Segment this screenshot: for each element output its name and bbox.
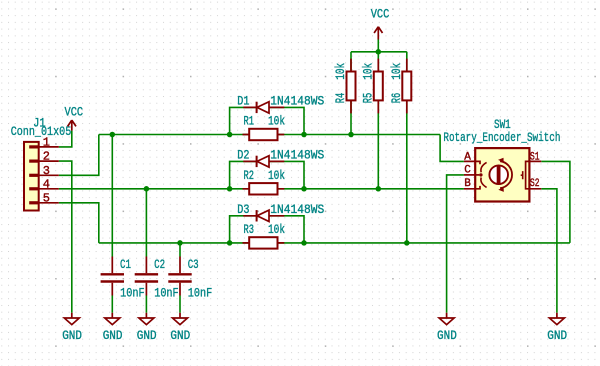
svg-text:R1: R1 [244,115,255,129]
wire VCC to R4 R5 R6 tops [351,40,407,52]
resistor R6 [402,59,411,114]
power VCC left [68,120,76,131]
svg-text:C1: C1 [120,258,131,272]
wire C1 riser [111,135,113,313]
diode D3 [243,210,284,221]
ground GND1 [64,313,79,325]
ground GND5 [439,313,454,325]
svg-text:1N4148WS: 1N4148WS [270,203,324,217]
wire SW1 pin C to GND [447,175,464,313]
ground GND2 [105,313,120,325]
svg-text:GND: GND [62,329,82,343]
svg-text:10k: 10k [268,115,285,129]
resistor R5 [374,59,383,114]
wire R6 vertical [406,52,408,243]
svg-text:10k: 10k [268,169,285,183]
svg-text:4: 4 [43,177,50,191]
power VCC top [374,27,382,40]
junction bus / R6 [404,240,410,246]
svg-text:R6: R6 [390,93,404,104]
svg-text:2: 2 [43,150,50,164]
junction row A / R4 [348,132,354,138]
junction row A / D1 left [227,132,233,138]
svg-text:C2: C2 [154,258,165,272]
svg-text:10k: 10k [268,223,285,237]
svg-text:R2: R2 [244,169,255,183]
resistor R3 [243,237,285,248]
svg-text:10k: 10k [361,63,375,80]
resistor R1 [243,129,285,140]
wire row A down to pin A of SW1 [440,135,464,162]
capacitor C2 [135,257,158,296]
svg-text:10nF: 10nF [188,287,213,301]
diode D1 [243,102,284,113]
svg-text:GND: GND [547,329,567,343]
connector J1 [24,142,59,211]
junction VCC top [376,49,382,55]
wire J1 pin1 to VCC [59,131,72,147]
wire row A horizontal [99,134,440,136]
svg-text:10nF: 10nF [120,287,145,301]
svg-text:S1: S1 [530,151,540,163]
junction row B / R5 [376,186,382,192]
wire R4 vertical [350,52,352,135]
junction bus / D3 right [301,240,307,246]
svg-text:GND: GND [170,329,190,343]
junction bus / D3 left [227,240,233,246]
svg-text:GND: GND [103,329,123,343]
wire S2 to GND [541,189,557,313]
svg-text:Conn_01x05: Conn_01x05 [11,125,72,139]
junction row A / C1 [110,132,116,138]
wire D2 parallel loop [230,161,304,188]
svg-text:R3: R3 [244,223,255,237]
svg-text:10k: 10k [334,63,348,80]
svg-text:R5: R5 [361,93,375,104]
svg-text:S2: S2 [530,178,540,190]
svg-text:10nF: 10nF [154,287,179,301]
wire bus horizontal [99,242,570,244]
wire J1 pin5 down to bus [59,203,99,243]
capacitor C3 [168,257,191,296]
svg-text:C: C [464,164,471,176]
svg-text:3: 3 [43,164,50,178]
svg-text:Rotary_Encoder_Switch: Rotary_Encoder_Switch [443,131,560,145]
svg-text:D2: D2 [237,149,249,163]
junction row B / D2 left [227,186,233,192]
svg-text:D1: D1 [237,95,249,109]
svg-text:5: 5 [43,191,50,205]
svg-text:10k: 10k [390,63,404,80]
svg-text:D3: D3 [237,203,249,217]
svg-text:VCC: VCC [371,7,390,21]
svg-text:GND: GND [137,329,157,343]
svg-text:A: A [464,151,471,163]
wire D1 parallel loop [230,107,304,134]
ground GND3 [139,313,154,325]
svg-text:1N4148WS: 1N4148WS [270,149,324,163]
wire J1 pin2 to GND [59,161,72,313]
svg-text:VCC: VCC [65,105,84,119]
svg-text:B: B [464,178,471,190]
ground GND4 [173,313,188,325]
svg-text:C3: C3 [188,258,199,272]
svg-text:R4: R4 [334,93,348,104]
junction row A / D1 right [301,132,307,138]
junction bus / C3 [177,240,183,246]
diode D2 [243,156,284,167]
capacitor C1 [101,257,124,296]
resistor R4 [347,59,356,114]
wire J1 pin3 up to row A [59,135,99,176]
resistor R2 [243,183,285,194]
svg-text:GND: GND [437,329,457,343]
junction row B / D2 right [301,186,307,192]
rotary encoder switch SW1 [464,148,541,201]
wire C3 riser [179,243,181,313]
wire bus up to S1 [541,161,570,243]
wire row B horizontal (J1 pin4 to SW1 pin B) [59,188,464,190]
wire R5 vertical [377,52,379,189]
ground GND6 [549,313,564,325]
svg-text:1N4148WS: 1N4148WS [270,95,324,109]
junction row B / C2 [144,186,150,192]
wire C2 riser [145,189,147,313]
wire D3 parallel loop [230,216,304,243]
